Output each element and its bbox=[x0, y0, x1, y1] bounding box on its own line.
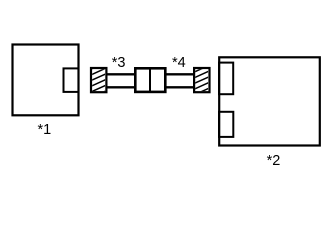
svg-text:*3: *3 bbox=[112, 55, 126, 71]
hatch lines of connector *3 bbox=[91, 62, 107, 97]
svg-text:*2: *2 bbox=[267, 153, 281, 169]
terminal notch on box *1 bbox=[64, 68, 79, 92]
wire bottom right bbox=[164, 86, 195, 88]
wire top left bbox=[106, 73, 136, 75]
component box *2 bbox=[219, 57, 320, 145]
top terminal notch on box *2 bbox=[219, 63, 233, 95]
hatch lines of connector *4 bbox=[194, 59, 210, 94]
hatched connector *4 bbox=[194, 68, 209, 92]
bottom terminal notch on box *2 bbox=[219, 112, 233, 137]
central connector divider bbox=[149, 68, 151, 92]
wire bottom left bbox=[106, 86, 136, 88]
component box *1 bbox=[13, 45, 79, 116]
hatched connector *3 bbox=[91, 68, 106, 92]
wire top right bbox=[164, 73, 195, 75]
svg-text:*1: *1 bbox=[38, 122, 52, 138]
central connector body bbox=[135, 68, 165, 92]
svg-text:*4: *4 bbox=[172, 55, 186, 71]
